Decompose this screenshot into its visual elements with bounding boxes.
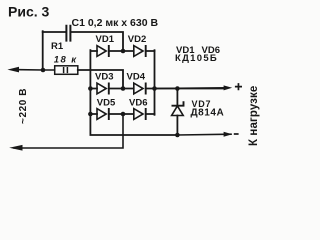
svg-text:~220 В: ~220 В <box>18 88 29 124</box>
svg-text:Рис. 3: Рис. 3 <box>8 4 50 20</box>
svg-text:18 к: 18 к <box>54 55 78 66</box>
svg-text:VD5: VD5 <box>97 98 116 109</box>
svg-text:VD3: VD3 <box>95 72 113 83</box>
svg-text:VD1: VD1 <box>96 34 115 45</box>
svg-text:Д814А: Д814А <box>191 108 225 119</box>
svg-text:C1 0,2 мк х 630 В: C1 0,2 мк х 630 В <box>72 17 159 29</box>
svg-text:R1: R1 <box>51 41 64 52</box>
svg-text:VD6: VD6 <box>129 98 147 109</box>
svg-text:КД105Б: КД105Б <box>175 53 218 64</box>
svg-text:К нагрузке: К нагрузке <box>248 86 260 146</box>
svg-text:VD4: VD4 <box>127 72 146 83</box>
svg-text:VD2: VD2 <box>128 34 146 45</box>
